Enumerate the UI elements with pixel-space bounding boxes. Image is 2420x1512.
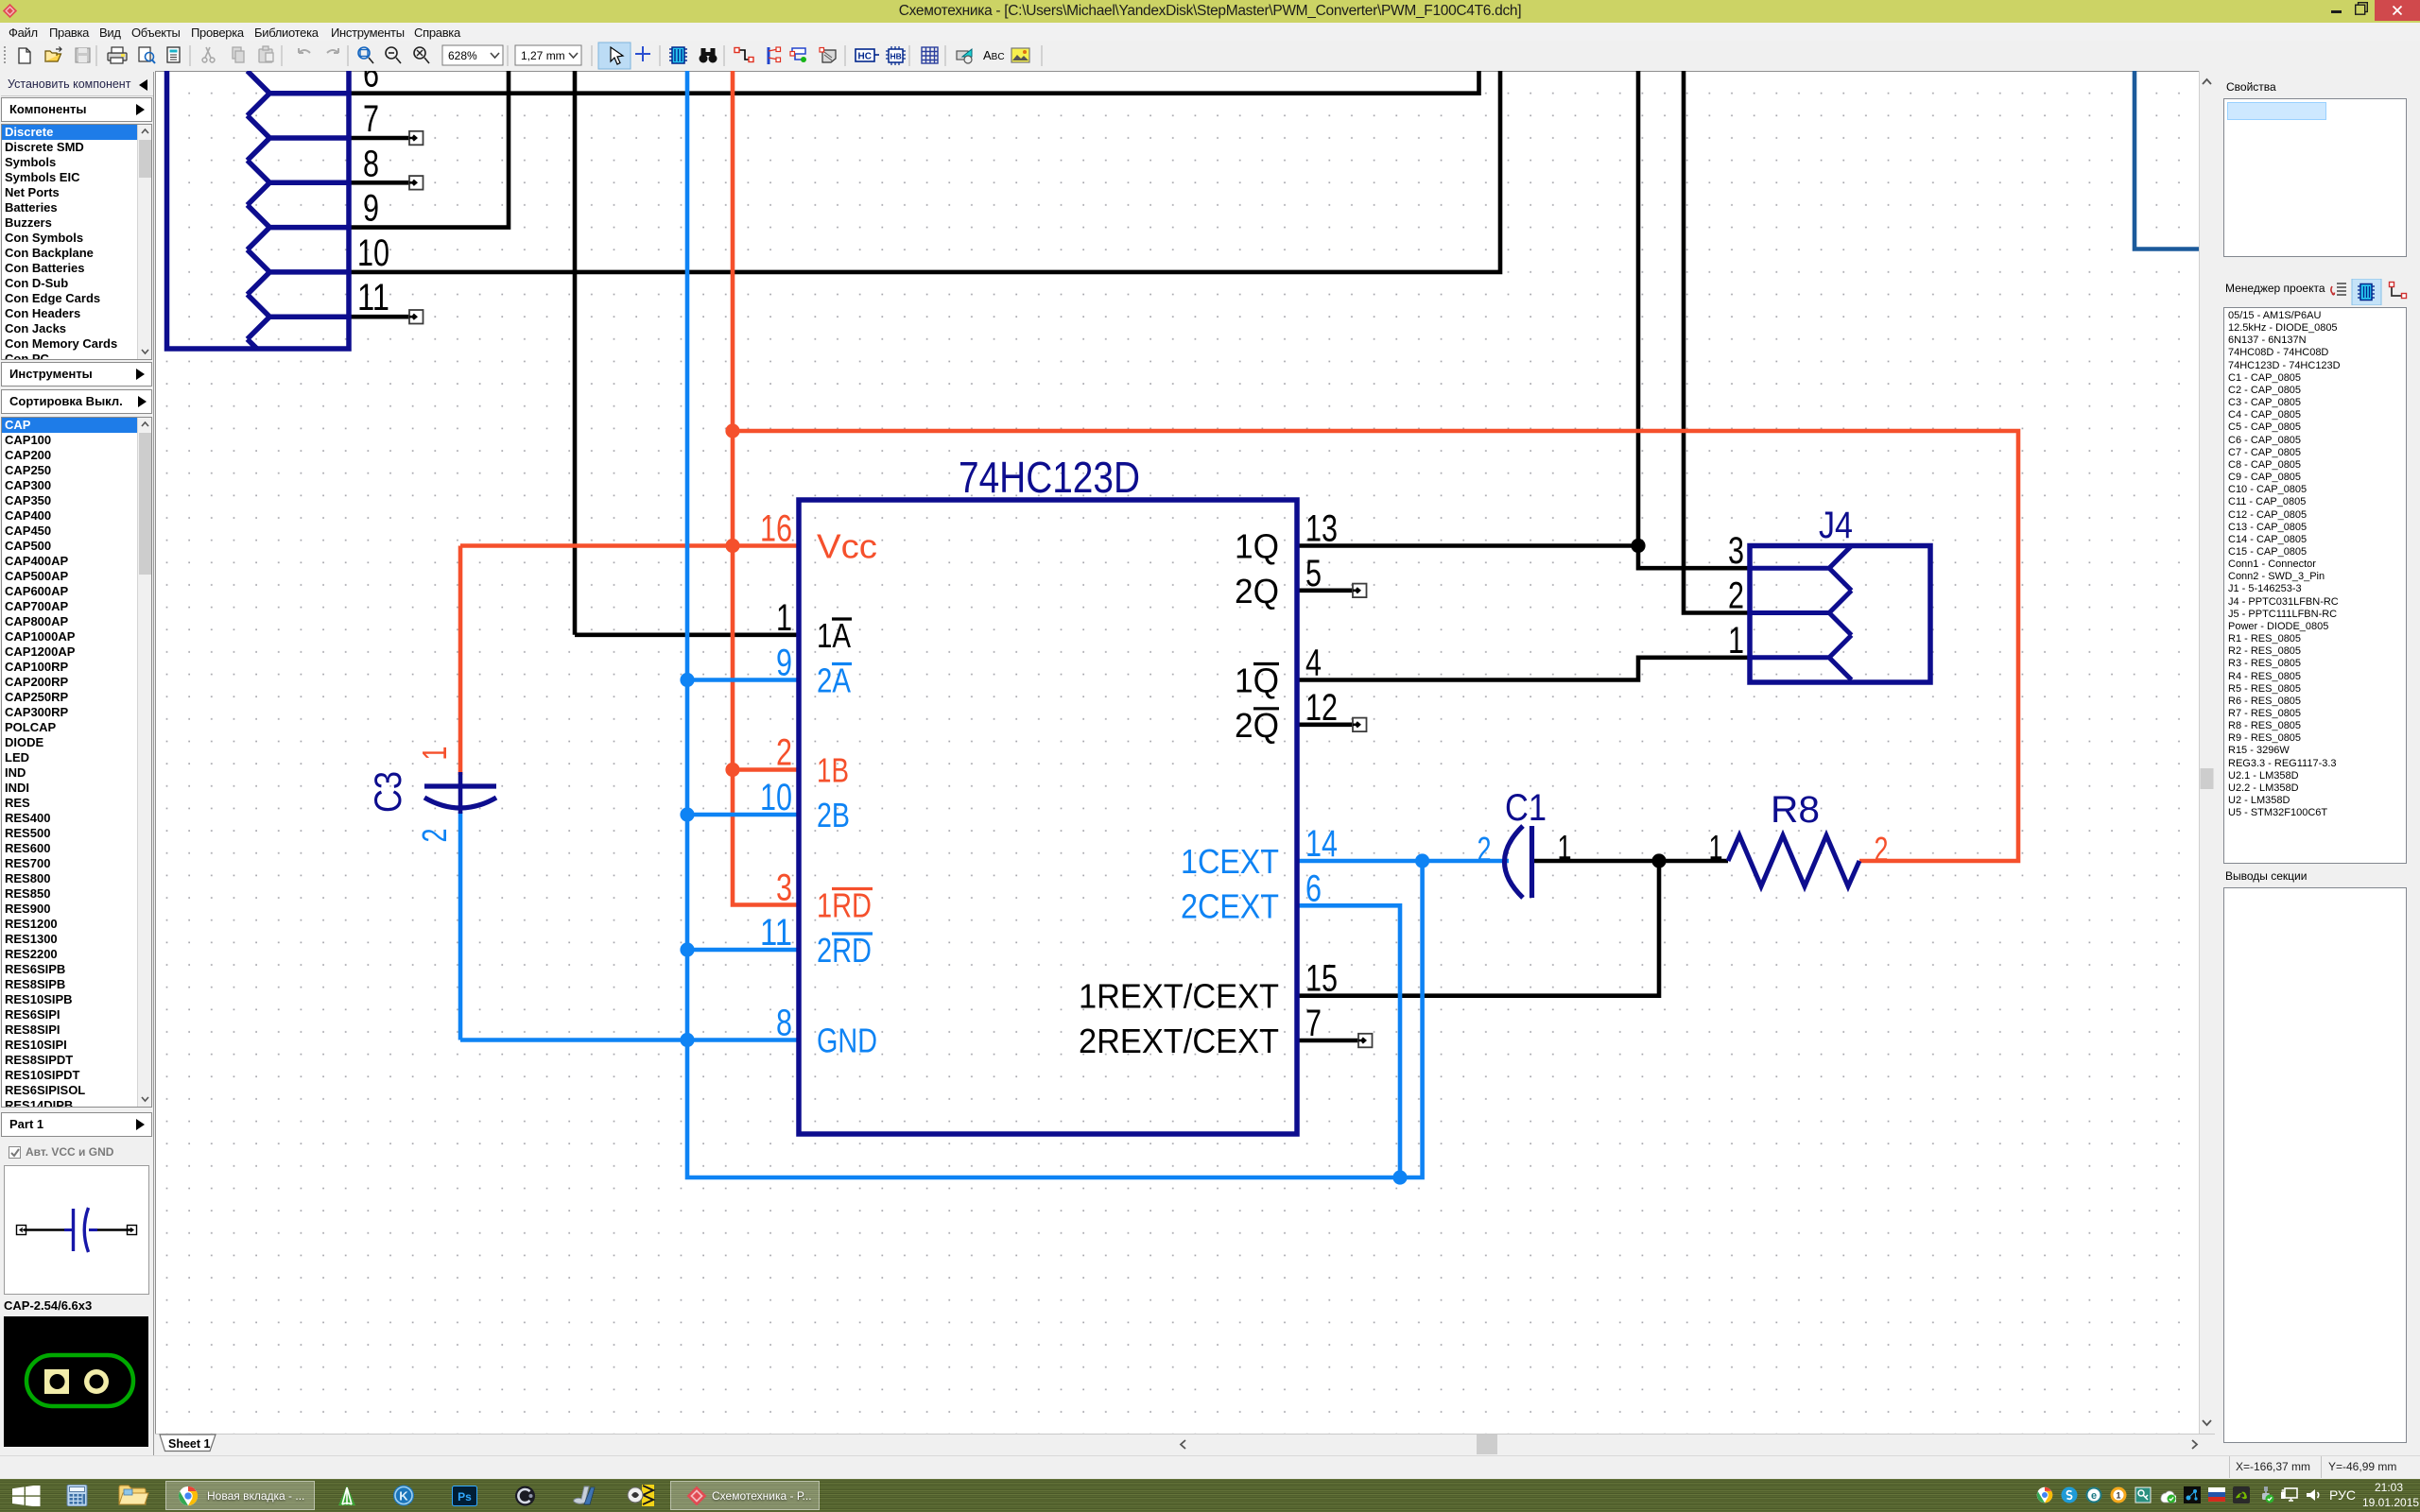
svg-text:1CEXT: 1CEXT <box>1181 842 1279 881</box>
svg-text:7: 7 <box>1305 1003 1322 1044</box>
svg-text:2B: 2B <box>817 796 850 834</box>
svg-text:2: 2 <box>1875 830 1889 868</box>
svg-text:2CEXT: 2CEXT <box>1181 886 1279 925</box>
svg-text:1: 1 <box>1558 828 1572 867</box>
svg-text:3: 3 <box>1728 530 1744 572</box>
svg-text:Sheet 1: Sheet 1 <box>168 1437 211 1451</box>
svg-text:9: 9 <box>363 188 379 230</box>
svg-text:1: 1 <box>776 597 792 639</box>
svg-text:4: 4 <box>1305 643 1322 684</box>
svg-text:15: 15 <box>1305 958 1338 1000</box>
svg-text:HB: HB <box>890 52 902 61</box>
svg-text:2REXT/CEXT: 2REXT/CEXT <box>1079 1022 1279 1060</box>
svg-text:Vcc: Vcc <box>817 527 877 566</box>
svg-text:5: 5 <box>1305 553 1322 594</box>
svg-text:14: 14 <box>1305 823 1338 865</box>
svg-text:74HC123D: 74HC123D <box>959 453 1140 502</box>
svg-text:13: 13 <box>1305 508 1338 550</box>
svg-text:6: 6 <box>1305 868 1322 909</box>
svg-text:1REXT/CEXT: 1REXT/CEXT <box>1079 977 1279 1016</box>
svg-text:8: 8 <box>776 1003 792 1044</box>
svg-text:R8: R8 <box>1771 789 1820 831</box>
svg-text:C3: C3 <box>368 771 409 813</box>
svg-text:1,27 mm: 1,27 mm <box>521 49 565 62</box>
svg-text:2: 2 <box>1478 830 1492 868</box>
svg-text:2A: 2A <box>817 661 851 700</box>
svg-text:10: 10 <box>357 232 389 274</box>
svg-text:2: 2 <box>415 829 454 843</box>
svg-text:8: 8 <box>363 143 379 184</box>
svg-text:ABC: ABC <box>983 48 1005 62</box>
svg-text:2Q: 2Q <box>1235 572 1279 610</box>
svg-text:K: K <box>399 1489 408 1503</box>
svg-text:12: 12 <box>1305 687 1338 729</box>
svg-text:e: e <box>2091 1490 2097 1502</box>
svg-text:2RD: 2RD <box>817 931 872 970</box>
svg-text:J4: J4 <box>1819 505 1853 546</box>
svg-text:2: 2 <box>1728 576 1744 617</box>
svg-text:1Q: 1Q <box>1235 661 1279 700</box>
svg-text:1RD: 1RD <box>817 886 872 925</box>
svg-text:1: 1 <box>2116 1491 2120 1501</box>
svg-text:16: 16 <box>760 508 792 550</box>
svg-text:10: 10 <box>760 777 792 818</box>
svg-text:GND: GND <box>817 1022 877 1060</box>
svg-text:Ps: Ps <box>458 1490 472 1503</box>
svg-text:1B: 1B <box>817 751 849 790</box>
svg-text:2Q: 2Q <box>1235 706 1279 745</box>
svg-text:11: 11 <box>357 277 389 318</box>
svg-text:HC: HC <box>858 52 872 62</box>
svg-text:C1: C1 <box>1505 787 1547 829</box>
svg-text:2: 2 <box>776 732 792 774</box>
svg-text:3: 3 <box>776 868 792 909</box>
svg-text:1: 1 <box>1709 828 1723 867</box>
svg-text:628%: 628% <box>448 49 477 62</box>
svg-text:7: 7 <box>363 98 379 140</box>
svg-text:1: 1 <box>1728 620 1744 661</box>
svg-text:9: 9 <box>776 643 792 684</box>
svg-text:6: 6 <box>363 71 379 95</box>
svg-text:11: 11 <box>760 912 792 954</box>
svg-text:1A: 1A <box>817 616 851 655</box>
svg-text:1: 1 <box>415 747 454 761</box>
svg-text:1Q: 1Q <box>1235 527 1279 566</box>
